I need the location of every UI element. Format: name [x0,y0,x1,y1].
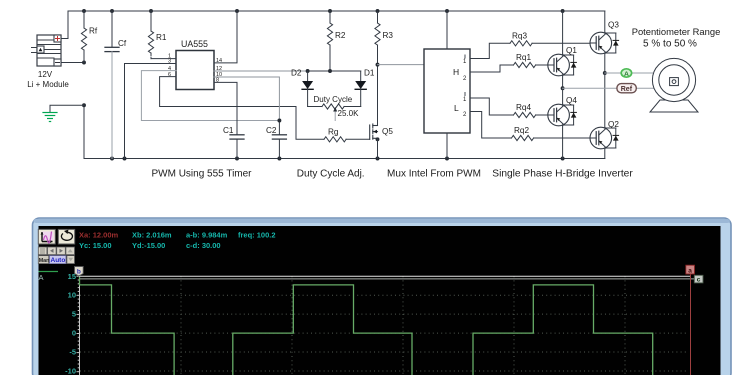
battery plus sign [56,37,60,41]
svg-text:D1: D1 [364,69,375,78]
svg-text:R2: R2 [335,31,346,40]
net label Ref [617,84,636,93]
svg-text:c-d: 30.00: c-d: 30.00 [186,241,221,250]
battery V1 12V Li + Module [32,35,62,66]
svg-text:25.0K: 25.0K [338,109,360,118]
motor M1 [650,58,698,112]
oscilloscope black panel [39,226,721,375]
svg-text:Rq4: Rq4 [516,103,531,112]
wire: Q3 emitter to A node [604,54,606,73]
pin 4 wire to wiper net [141,71,279,121]
scope y axis [77,276,80,375]
svg-text:R1: R1 [156,33,167,42]
svg-text:A: A [39,273,44,282]
wire: top power bus [68,11,605,39]
svg-text:Ref: Ref [621,86,633,93]
svg-text:D2: D2 [291,69,302,78]
svg-text:Q1: Q1 [566,46,577,55]
transistor Q2 [590,127,619,149]
svg-text:Duty Cycle Adj.: Duty Cycle Adj. [297,168,365,179]
oscilloscope window frame [33,218,732,375]
wire: Q5 source to ground bus [377,139,379,158]
svg-text:Rf: Rf [89,27,98,36]
wire: ground branch [50,105,84,112]
svg-text:Potentiometer Range: Potentiometer Range [632,26,721,37]
transistor Q3 [590,32,619,54]
resistor Rg [324,137,370,142]
scope cursor a vertical line [690,275,692,375]
resistor Rq4 [514,112,548,117]
pin 3 wire to ground bus [125,64,177,159]
capacitor Cf [105,11,119,159]
pin 10 wire to wiper net [214,77,279,121]
svg-text:b: b [77,269,81,276]
label: mux H pins [453,55,467,82]
node: top bus junction dots [82,9,565,13]
wire: diode top rail [308,70,361,72]
svg-text:6: 6 [168,72,171,78]
node: wiper net junction at C2 top [277,119,281,123]
wire: Q3 collector to bus [604,11,606,32]
wire: Q2 emitter to bus [604,149,606,159]
svg-text:Yd:-15.00: Yd:-15.00 [132,241,165,250]
scope channel A label [39,272,59,283]
node: Q5 source junction [376,137,380,141]
pin 6 wire to Rg [160,77,324,140]
svg-text:Rq2: Rq2 [514,126,529,135]
svg-text:Single Phase H-Bridge Inverter: Single Phase H-Bridge Inverter [492,168,633,179]
pin 8 wire to C1 [214,82,237,134]
label: mux L pins [454,93,467,119]
svg-text:Q4: Q4 [566,96,577,105]
pin 14 wire to top bus [214,11,237,63]
capacitor C2 [272,121,286,159]
wire: mux L2 to Rq2 [470,112,512,139]
wire: mux H1 to Rq3 [470,43,510,58]
resistor R3 [375,11,380,125]
svg-text:Rg: Rg [328,128,339,137]
wire: Q1 emitter to Ref node [562,76,564,89]
scope y axis labels [65,272,76,375]
svg-text:14: 14 [216,58,222,64]
node: battery minus junction [82,61,86,65]
scope small buttons row [38,247,74,255]
node: mux input junction [376,63,380,67]
pin 12 wire to diode node [214,70,308,72]
scope plot grid [80,276,689,375]
svg-text:Q2: Q2 [608,120,619,129]
svg-text:freq: 100.2: freq: 100.2 [238,230,276,239]
resistor Rf [81,11,86,63]
svg-text:Mux Intel From PWM: Mux Intel From PWM [387,168,481,179]
resistor Rq2 [512,135,591,140]
svg-text:12V: 12V [38,70,53,79]
transistor Q5 MOSFET [370,124,378,139]
wire: A node to Q2 collector [604,73,606,127]
svg-text:Duty Cycle: Duty Cycle [314,95,353,104]
svg-text:R3: R3 [383,31,394,40]
wire: Q4 collector [562,88,564,104]
scope cursor flag b [75,267,84,277]
svg-text:Q3: Q3 [608,21,619,30]
svg-text:Xa: 12.00m: Xa: 12.00m [79,230,119,239]
svg-text:C2: C2 [266,126,277,135]
svg-text:Auto: Auto [51,257,66,264]
svg-text:PWM Using 555 Timer: PWM Using 555 Timer [151,168,252,179]
mux block A1 [424,49,470,133]
resistor R2 [327,11,332,71]
node: A junction [603,71,607,75]
svg-text:Xb: 2.016m: Xb: 2.016m [132,230,172,239]
op-amp U1 UA555 timer [176,51,214,90]
scope button: reverse [58,229,74,244]
resistor Rq3 [510,41,590,46]
capacitor C1 [230,135,244,159]
wire: battery plus to top bus [61,38,68,40]
svg-text:Cf: Cf [118,39,127,48]
wire: Q1 collector to bus [562,11,564,54]
svg-text:Q5: Q5 [382,127,393,136]
wire: battery minus to Rf column [61,62,84,64]
wire: mux H2 to Rq1 [470,65,514,72]
svg-text:c: c [697,277,701,284]
scope Man Auto buttons [38,256,74,265]
svg-text:C1: C1 [223,126,234,135]
svg-text:Man: Man [39,258,50,264]
svg-text:UA555: UA555 [181,39,208,49]
svg-text:5 % to 50 %: 5 % to 50 % [643,39,697,50]
wire: PWM to mux input [378,64,425,66]
scope cursor flag c [694,275,703,283]
svg-text:Rq3: Rq3 [512,32,527,41]
node: R2 bottom junction [328,69,332,73]
svg-text:Yc: 15.00: Yc: 15.00 [79,241,112,250]
transistor Q4 [548,104,577,126]
node: bottom bus junction dots [110,157,565,161]
node: D2 top junction [306,69,310,73]
svg-text:a: a [688,267,692,274]
svg-text:Li + Module: Li + Module [27,80,69,89]
wire: mux top to bus [446,11,448,49]
svg-text:A: A [624,71,629,78]
svg-text:8: 8 [216,77,219,83]
scope cursor c horizontal line [80,278,696,280]
battery minus sign [56,62,60,64]
svg-text:3: 3 [168,59,171,65]
ground [43,113,57,122]
diode D2 [302,71,313,107]
scope button: show graph [38,229,55,244]
svg-text:Rq1: Rq1 [516,53,531,62]
net label A [621,69,631,78]
wire: A node to motor [605,72,653,74]
wire: Ref node to motor [563,87,654,89]
node: Ref junction [561,86,565,90]
scope trace channel A [80,277,653,375]
potentiometer Duty Cycle 25.0K [308,104,361,121]
wire: mux L1 to Rq4 [470,98,514,115]
node: ground branch junction [82,103,86,107]
svg-text:H: H [453,67,459,77]
scope plot top border [80,275,691,277]
svg-text:-5: -5 [69,348,76,357]
diode D1 [355,71,366,107]
scope cursor flag a [686,265,695,274]
transistor Q1 [548,54,577,76]
wire: mux bottom to bus [446,133,448,159]
resistor R1 [148,11,153,59]
svg-text:-10: -10 [65,367,76,375]
svg-text:L: L [454,103,459,113]
svg-text:a-b: 9.984m: a-b: 9.984m [186,230,228,239]
svg-text:10: 10 [68,291,76,300]
resistor Rq1 [514,62,548,67]
pin 1 [151,58,176,60]
svg-text:0: 0 [72,329,76,338]
wire: bottom ground bus [84,105,605,158]
wire: Q4 emitter to bus [562,126,564,159]
svg-text:5: 5 [72,310,76,319]
